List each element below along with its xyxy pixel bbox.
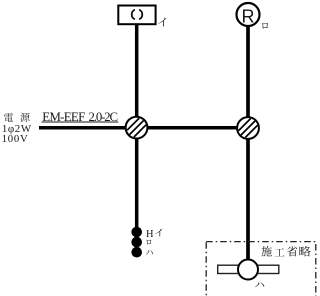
fluorescent luminaire bar <box>218 265 279 273</box>
svg-text:R: R <box>242 7 255 27</box>
ceiling rosette box (引掛シーリング) <box>118 6 155 25</box>
underline of cable label <box>42 121 119 123</box>
dashed box 施工省略 (installation omitted) <box>206 242 316 296</box>
label 源 (dengen-gen) <box>20 113 29 122</box>
svg-text:H: H <box>146 229 154 240</box>
ceiling rosette ( ) glyph <box>132 10 135 20</box>
label 省 (sekou-shou) <box>287 246 297 257</box>
label ロ (ro-switch) <box>146 240 151 245</box>
wire: power feed horizontal from source to junction box A <box>39 126 137 130</box>
switch dot 3 (circuit ハ) <box>131 247 142 258</box>
label イ (i-rosette) <box>158 18 166 27</box>
label ロ (ro-receptacle) <box>262 23 268 29</box>
label 施 (sekou-shi) <box>261 246 272 257</box>
svg-text:100V: 100V <box>2 133 28 145</box>
label 工 (sekou-kou) <box>275 248 285 256</box>
switch dot 1 (locator-light switch, circuit イ) <box>131 227 142 238</box>
wire: horizontal between junction box A and junction box B <box>137 126 249 130</box>
junction box B (hatched circle) <box>237 117 259 139</box>
label ハ (ha-luminaire) <box>255 283 264 288</box>
switch dot 2 (circuit ロ) <box>131 237 142 248</box>
fluorescent luminaire circle <box>238 260 258 280</box>
wire: vertical from ceiling rosette down through junction A to switches <box>135 25 139 228</box>
label イ (i-switch) <box>155 229 162 236</box>
label 電 (dengen-den) <box>4 113 13 122</box>
lamp receptacle: circle <box>237 3 260 26</box>
wire: vertical from lamp receptacle R down through junction B to luminaire <box>246 26 250 260</box>
label 略 (sekou-ryaku) <box>299 246 310 257</box>
label ハ (ha-switch) <box>146 250 153 255</box>
junction box A (hatched circle) <box>126 117 148 139</box>
